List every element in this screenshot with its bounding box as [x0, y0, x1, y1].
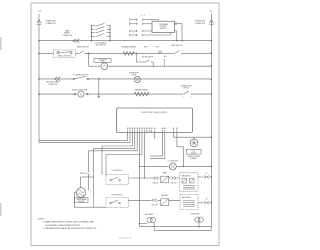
- svg-text:LIGHT: LIGHT: [132, 75, 136, 77]
- svg-text:SURF UNIT SW: SURF UNIT SW: [171, 45, 182, 47]
- svg-text:POWER LINE: POWER LINE: [195, 21, 205, 23]
- svg-text:4: 4: [183, 97, 184, 99]
- svg-text:120V 60HZ: 120V 60HZ: [78, 201, 85, 203]
- svg-text:PRB CON: PRB CON: [80, 173, 86, 175]
- svg-text:CONVECTION FAN: CONVECTION FAN: [187, 155, 199, 158]
- svg-text:CONNECTOR: CONNECTOR: [62, 35, 73, 37]
- svg-text:BAKE VALVE: BAKE VALVE: [182, 175, 190, 178]
- svg-text:4: 4: [174, 56, 175, 58]
- svg-text:BR #1: BR #1: [144, 47, 148, 49]
- svg-text:MODULE: MODULE: [160, 28, 166, 30]
- svg-text:N2: N2: [206, 199, 208, 201]
- svg-text:HI LIMIT SWITCH: HI LIMIT SWITCH: [142, 57, 153, 59]
- svg-text:CONNECTOR: CONNECTOR: [46, 23, 57, 25]
- svg-text:CHA CON: CHA CON: [153, 182, 159, 185]
- svg-text:2. COMPONENTS WITH L2 ARE AT L: 2. COMPONENTS WITH L2 ARE AT LINE VOLTAG…: [43, 227, 97, 230]
- svg-text:WIRING: WIRING: [64, 33, 71, 35]
- svg-text:BAKED SWITCH: BAKED SWITCH: [77, 45, 88, 48]
- svg-text:SPARK: SPARK: [163, 172, 168, 175]
- svg-text:C: C: [110, 205, 111, 207]
- svg-text:CONTROL: CONTROL: [160, 26, 167, 28]
- svg-text:CONNECTOR: CONNECTOR: [48, 84, 57, 86]
- svg-text:LOCK MOTOR: LOCK MOTOR: [168, 160, 179, 162]
- svg-text:DOOR SWITCH: DOOR SWITCH: [112, 195, 123, 197]
- svg-text:POWER LINE: POWER LINE: [46, 21, 56, 23]
- svg-text:2 # 1: 2 # 1: [141, 15, 145, 17]
- svg-text:GAS VALVE: GAS VALVE: [161, 194, 168, 197]
- svg-text:SWITCH: SWITCH: [183, 88, 189, 90]
- svg-text:LOCK SWITCH: LOCK SWITCH: [112, 170, 122, 172]
- svg-text:TOP BURNER: TOP BURNER: [158, 24, 169, 26]
- svg-text:OVEN LIGHT SWITCH: OVEN LIGHT SWITCH: [58, 56, 72, 58]
- svg-text:120V: 120V: [101, 61, 104, 63]
- svg-text:NOTES:: NOTES:: [38, 219, 45, 221]
- svg-text:IGN CON: IGN CON: [171, 183, 177, 185]
- svg-text:5: 5: [181, 56, 182, 58]
- svg-text:MAIN: MAIN: [65, 29, 69, 32]
- svg-text:LT RT SURFACE: LT RT SURFACE: [95, 41, 107, 44]
- svg-text:M: M: [80, 94, 82, 96]
- svg-text:BROIL VALVE: BROIL VALVE: [182, 196, 191, 199]
- svg-text:CONNECTOR: CONNECTOR: [195, 23, 206, 25]
- svg-text:ELEMENT: ELEMENT: [190, 158, 197, 160]
- svg-text:SURFACE OVEN: SURFACE OVEN: [180, 84, 191, 87]
- svg-text:BROILING LOWER: BROILING LOWER: [47, 82, 60, 84]
- svg-text:WHT: WHT: [164, 56, 167, 58]
- svg-text:1. CONNECT WIRING WITH ALL CON: 1. CONNECT WIRING WITH ALL CONTROLS SET …: [43, 221, 94, 224]
- svg-text:NUTS SECURED TO EACH CONNECTIO: NUTS SECURED TO EACH CONNECTION POINT: [46, 224, 80, 227]
- svg-text:LT SURFACE UNIT SW: LT SURFACE UNIT SW: [73, 74, 89, 77]
- svg-text:ELECTRONIC OVEN CONTROL: ELECTRONIC OVEN CONTROL: [142, 112, 168, 114]
- svg-text:SURFACE ELEMENT: SURFACE ELEMENT: [122, 45, 137, 48]
- svg-text:L 1: L 1: [38, 10, 42, 13]
- svg-text:BLK CON: BLK CON: [152, 205, 158, 207]
- svg-text:+ OVEN LAMP: + OVEN LAMP: [143, 213, 153, 216]
- svg-text:WARMER ELEMENT: WARMER ELEMENT: [135, 88, 149, 91]
- svg-text:C: C: [110, 182, 111, 184]
- svg-text:N: N: [210, 10, 212, 13]
- svg-text:WHT: WHT: [156, 47, 159, 49]
- svg-text:NO: NO: [120, 205, 122, 207]
- svg-text:5: 5: [191, 97, 192, 99]
- svg-text:NO: NO: [120, 182, 122, 184]
- svg-text:UNIT SWITCH: UNIT SWITCH: [95, 45, 105, 47]
- svg-text:SURFACE IND: SURFACE IND: [129, 72, 139, 75]
- svg-text:OVEN DOOR MOTOR: OVEN DOOR MOTOR: [72, 90, 88, 92]
- svg-text:MOTOR: MOTOR: [191, 152, 196, 154]
- svg-text:N1: N1: [206, 173, 208, 175]
- svg-text:TOD: TOD: [192, 151, 195, 153]
- svg-text:24050210: 24050210: [119, 237, 132, 239]
- svg-text:+ OVEN LAMP: + OVEN LAMP: [190, 213, 200, 216]
